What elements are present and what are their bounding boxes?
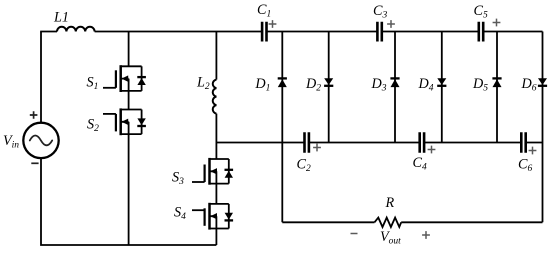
transistor S3 xyxy=(192,158,233,185)
wire top rail L1 to C1 xyxy=(95,31,263,33)
svg-text:D6: D6 xyxy=(521,76,537,93)
diode D3 xyxy=(391,79,400,87)
svg-text:D3: D3 xyxy=(371,76,387,93)
capacitor C2 xyxy=(305,132,309,153)
wire middle rail C2 to C4 xyxy=(309,142,420,144)
wire top rail C1 to C3 xyxy=(267,31,378,33)
plus sign Vin xyxy=(30,111,38,119)
wire diode D2 branch xyxy=(328,32,330,143)
wire middle rail L2 node to C2 xyxy=(216,142,304,144)
plus sign C6 xyxy=(529,147,537,155)
svg-text:Vin: Vin xyxy=(3,133,19,150)
wire left rail bottom (Vin- to bottom rail) xyxy=(41,158,216,245)
svg-text:C2: C2 xyxy=(297,157,311,174)
wire diode D3 branch xyxy=(394,32,396,143)
plus sign C5 xyxy=(493,19,501,27)
svg-text:C6: C6 xyxy=(518,157,532,174)
svg-text:D4: D4 xyxy=(418,76,434,93)
diode D5 xyxy=(493,79,502,87)
diode D4 xyxy=(437,78,446,85)
svg-text:S2: S2 xyxy=(87,117,99,134)
inductor L2 xyxy=(213,80,217,114)
minus sign Vout xyxy=(351,233,358,235)
diode D6 xyxy=(538,78,547,85)
capacitor C5 xyxy=(479,22,483,42)
wire S2 source to bottom rail xyxy=(128,134,130,245)
wire output bottom left segment xyxy=(282,221,374,223)
svg-text:C3: C3 xyxy=(373,3,387,20)
svg-text:C4: C4 xyxy=(413,155,427,172)
plus sign Vout xyxy=(422,231,430,239)
wire L2 bottom to S3 drain / node at middle rail xyxy=(215,114,217,159)
wire middle rail C6 to right edge xyxy=(526,142,543,144)
svg-text:L2: L2 xyxy=(196,75,210,92)
plus sign C2 xyxy=(313,144,321,152)
capacitor C6 xyxy=(521,132,525,153)
svg-text:L1: L1 xyxy=(53,10,69,26)
wire S4 source to bottom rail xyxy=(215,229,217,246)
svg-text:D2: D2 xyxy=(305,76,321,93)
svg-text:C1: C1 xyxy=(257,2,271,19)
diode D1 xyxy=(278,79,287,87)
wire diode D1 branch xyxy=(281,32,283,143)
svg-text:D5: D5 xyxy=(472,76,488,93)
svg-text:C5: C5 xyxy=(474,3,488,20)
plus sign C1 xyxy=(269,20,277,28)
transistor S4 xyxy=(192,203,233,230)
capacitor C4 xyxy=(420,132,424,153)
wire top rail C3 to C5 xyxy=(382,31,479,33)
wire L2 top from top rail xyxy=(215,32,217,80)
wire output left drop from D1 node xyxy=(281,143,283,223)
transistor S1 xyxy=(103,65,146,92)
resistor R xyxy=(375,218,402,227)
minus sign Vin xyxy=(31,162,38,164)
diode D2 xyxy=(324,78,333,85)
svg-text:D1: D1 xyxy=(254,76,270,93)
transistor S2 xyxy=(103,108,146,135)
plus sign C4 xyxy=(428,146,436,154)
svg-text:R: R xyxy=(385,195,395,211)
wire output bottom right segment xyxy=(401,221,542,223)
svg-text:S3: S3 xyxy=(172,170,184,187)
svg-text:S1: S1 xyxy=(87,75,99,92)
wire diode D4 branch xyxy=(441,32,443,143)
wire left rail top (Vin+ to top-left corner) xyxy=(40,32,42,123)
wire diode D5 branch xyxy=(496,32,498,143)
svg-text:S4: S4 xyxy=(174,205,186,222)
wire middle rail C4 to C6 xyxy=(424,142,521,144)
wire S1 source to S2 drain xyxy=(128,91,130,110)
wire S3 source to S4 drain xyxy=(215,184,217,204)
svg-text:Vout: Vout xyxy=(380,229,401,246)
wire S1 drain from top rail xyxy=(128,32,130,67)
inductor L1 xyxy=(57,27,95,32)
capacitor C3 xyxy=(377,22,381,42)
capacitor C1 xyxy=(262,22,266,42)
wire right edge / diode D6 branch xyxy=(542,32,544,223)
wire top rail from corner to L1 xyxy=(40,31,57,33)
wire top rail C5 to right corner xyxy=(483,31,542,33)
voltage source Vin xyxy=(23,123,58,158)
plus sign C3 xyxy=(387,20,395,28)
